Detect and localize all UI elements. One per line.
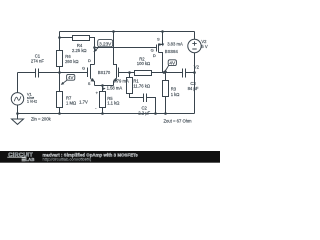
- svg-text:S: S: [88, 81, 91, 86]
- arrow M1 source: [91, 78, 95, 82]
- wire bottom rail: [18, 113, 195, 115]
- current arrow 3.83 mA: [161, 44, 164, 47]
- svg-text:1 kHz: 1 kHz: [27, 98, 37, 103]
- svg-text:1.1 kΩ: 1.1 kΩ: [107, 100, 119, 105]
- svg-text:BSS84: BSS84: [165, 49, 179, 54]
- wire input node rail: [18, 72, 36, 74]
- wire V2 bottom: [194, 53, 196, 114]
- callout 4V output: [164, 60, 177, 73]
- resistor R3: [163, 81, 169, 97]
- junction dots: [16, 30, 196, 115]
- svg-text:Zin = 200k: Zin = 200k: [31, 117, 52, 122]
- capacitor C2: [144, 94, 147, 103]
- svg-text:2.25 kΩ: 2.25 kΩ: [72, 48, 87, 53]
- wire top rail: [60, 31, 195, 33]
- svg-text:2.2 µF: 2.2 µF: [138, 110, 150, 115]
- voltage source V2: [188, 39, 201, 52]
- svg-text:+: +: [96, 90, 99, 95]
- resistor R2: [135, 71, 152, 76]
- resistor R6: [57, 51, 63, 67]
- callout 3.23V: [93, 40, 112, 53]
- resistor R7: [57, 92, 63, 108]
- svg-text:260 kΩ: 260 kΩ: [65, 59, 78, 64]
- svg-text:1.58 mA: 1.58 mA: [107, 86, 123, 91]
- svg-text:V2: V2: [194, 64, 200, 69]
- wire R2 to output: [152, 72, 183, 74]
- wire M1 drain: [94, 48, 96, 65]
- labels: [27, 36, 208, 123]
- wire R3 bottom: [165, 97, 167, 114]
- wire R7 top: [59, 73, 61, 92]
- wire R5 bottom: [102, 108, 104, 114]
- wire R4 branch: [60, 37, 73, 39]
- svg-text:84 µF: 84 µF: [188, 86, 199, 91]
- svg-text:Zout = 67 Ohm: Zout = 67 Ohm: [164, 119, 193, 124]
- voltage source V1: [11, 93, 23, 105]
- wire C2 to ground rail: [147, 98, 156, 114]
- svg-text:-: -: [95, 106, 97, 111]
- svg-text:274 nF: 274 nF: [31, 59, 44, 64]
- transistor M1 BS170: [88, 65, 95, 86]
- svg-text:5 V: 5 V: [201, 44, 207, 49]
- svg-text:1 MΩ: 1 MΩ: [66, 101, 76, 106]
- arrow M2 source: [113, 78, 117, 82]
- wire gate M2 to feedback node: [119, 72, 135, 74]
- transistor M3 BSS84: [157, 32, 163, 73]
- mosfet arrows: [91, 43, 163, 82]
- svg-text:D: D: [153, 53, 156, 58]
- resistor R1: [127, 78, 133, 94]
- wire BSS84 gate: [95, 47, 157, 49]
- wire common source rail: [95, 85, 114, 87]
- capacitor C3: [183, 69, 186, 78]
- svg-text:100 kΩ: 100 kΩ: [137, 61, 150, 66]
- wire V2 top: [194, 32, 196, 40]
- svg-text:BS170: BS170: [98, 70, 111, 75]
- wire V+ left column: [59, 32, 61, 51]
- svg-text:G: G: [151, 47, 154, 52]
- wire R3 top: [165, 73, 167, 81]
- resistor R4: [73, 36, 90, 41]
- resistor R5: [100, 92, 106, 108]
- transistor M2 BS170 mirrored: [114, 32, 119, 86]
- svg-text:4V: 4V: [68, 75, 75, 80]
- callout 4V input: [61, 74, 75, 85]
- wire C1 to node: [39, 72, 60, 74]
- svg-text:☰LAB: ☰LAB: [22, 157, 35, 162]
- wire V1 top: [17, 73, 19, 93]
- wire R1 top: [129, 73, 131, 78]
- wire gate M1: [60, 72, 88, 74]
- current arrow 1.58 mA: [103, 87, 106, 90]
- wire C3 to V2 column: [186, 72, 195, 74]
- svg-text:3.83 mA: 3.83 mA: [167, 41, 183, 46]
- svg-text:G: G: [82, 65, 85, 70]
- wire R4 to M1 drain: [90, 38, 95, 48]
- svg-text:1.7V: 1.7V: [79, 100, 88, 105]
- svg-text:4V: 4V: [169, 61, 176, 66]
- wire R6 to input node: [59, 67, 61, 73]
- ground: [12, 114, 24, 125]
- svg-text:0.79 mA: 0.79 mA: [113, 78, 129, 83]
- svg-text:R3: R3: [171, 87, 177, 92]
- wire R7 bottom: [59, 108, 61, 114]
- wire V1 bottom: [17, 105, 19, 114]
- current arrows: [103, 44, 164, 91]
- capacitor C1: [36, 69, 39, 78]
- arrow M3 source: [159, 43, 162, 46]
- wire R1 bottom to C2: [130, 94, 144, 98]
- svg-text:S: S: [157, 36, 160, 41]
- svg-text:http://circuitlab.com/c6b86q: http://circuitlab.com/c6b86q: [43, 157, 92, 162]
- svg-text:11.76 kΩ: 11.76 kΩ: [133, 84, 150, 89]
- svg-text:1 kΩ: 1 kΩ: [171, 92, 180, 97]
- footer bar: [0, 151, 220, 163]
- wire tail to R5: [102, 86, 104, 92]
- svg-text:D: D: [88, 58, 91, 63]
- svg-text:3.23V: 3.23V: [99, 42, 112, 47]
